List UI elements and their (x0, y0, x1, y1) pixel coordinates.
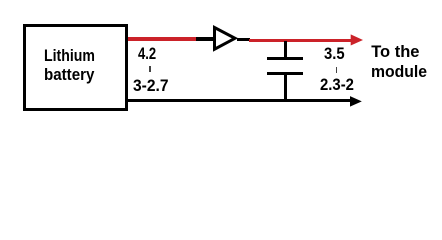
label battery (battery box line 2) (44, 67, 94, 84)
cursor tick mark left (149, 66, 151, 72)
arrowhead black to module (-) (348, 95, 364, 109)
wire red V+ segment 1 (128, 37, 196, 40)
capacitor C1 top plate (267, 57, 303, 61)
buffer U1 (triangle) (205, 20, 245, 56)
label module (line 2) (371, 64, 427, 81)
wire black buffer input lead (196, 37, 214, 40)
wire black return (bottom) (128, 99, 351, 102)
label 4.2 (138, 46, 156, 63)
capacitor C1 bottom plate (267, 72, 303, 76)
label 3.5 (324, 46, 345, 63)
label 3-2.7 (133, 78, 169, 95)
wire red V+ segment 2 (249, 39, 352, 42)
cursor tick mark right (336, 67, 338, 73)
label 2.3-2 (320, 77, 354, 94)
capacitor C1 bottom lead (284, 75, 288, 100)
wire black buffer output lead (237, 38, 250, 41)
label To the (line 1) (371, 44, 419, 61)
capacitor C1 top lead (284, 41, 288, 57)
arrowhead red to module (+) (349, 33, 365, 47)
battery box B1 (23, 24, 128, 111)
label Lithium (battery box line 1) (44, 48, 95, 65)
